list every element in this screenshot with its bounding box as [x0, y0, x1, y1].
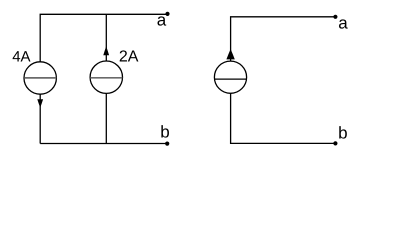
svg-text:b: b	[338, 123, 347, 142]
svg-text:a: a	[157, 10, 167, 29]
svg-text:b: b	[160, 122, 169, 141]
svg-text:a: a	[338, 14, 348, 33]
svg-text:4A: 4A	[12, 49, 30, 66]
svg-text:2A: 2A	[119, 48, 139, 65]
